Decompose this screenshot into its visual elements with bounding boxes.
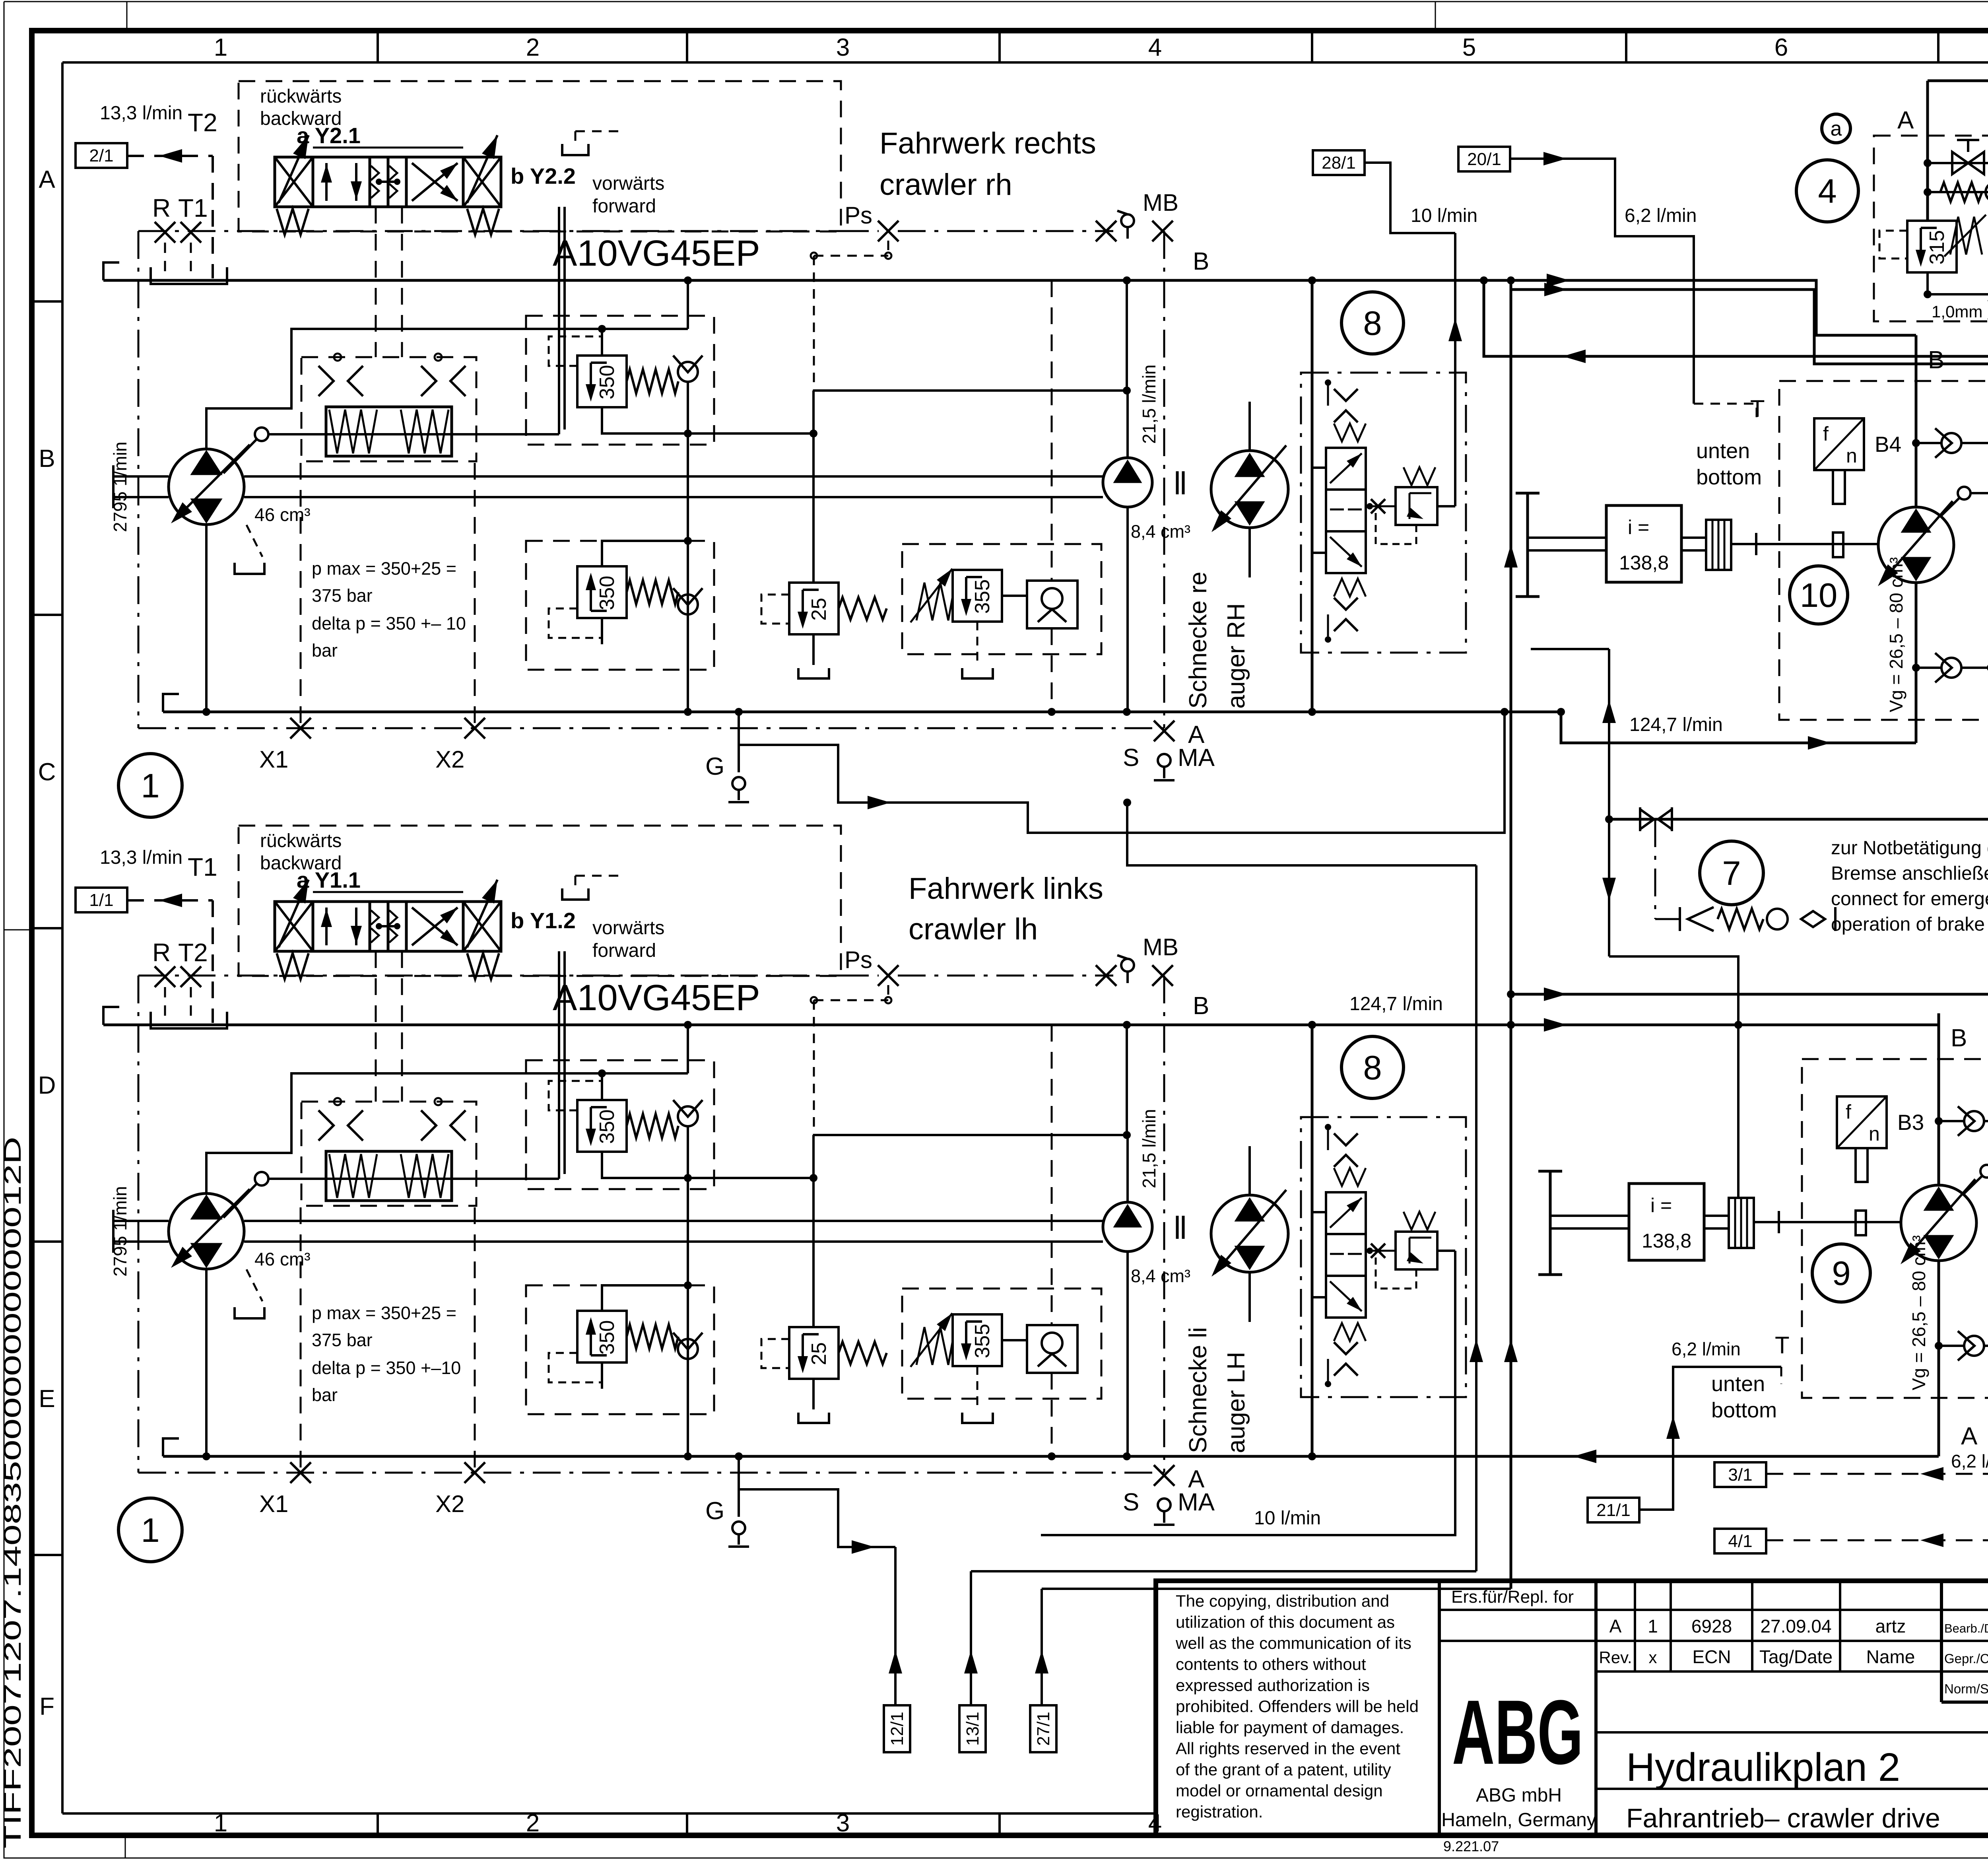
directional valve right spring pump1 right crawler <box>467 209 499 235</box>
speed sensor f/n box motor1 upper <box>1814 418 1864 470</box>
wire pilot rail y1090 pump1 right crawler <box>688 432 813 435</box>
aux motor triangle up pump2 left crawler <box>1236 1199 1263 1221</box>
svg-text:S: S <box>1123 744 1139 772</box>
port X marks MB pump2 left crawler <box>1096 965 1116 986</box>
aux motor stub top pump2 left crawler <box>1248 1146 1251 1195</box>
main pump circle pump2 left crawler <box>169 1193 244 1269</box>
svg-text:i =: i = <box>1650 1194 1672 1217</box>
wire 4/1 dashed return <box>1767 1539 1988 1541</box>
circled number 9 motor2 lower <box>1812 1244 1870 1302</box>
svg-text:All rights reserved in the eve: All rights reserved in the event <box>1176 1739 1400 1758</box>
svg-text:A10VG45EP: A10VG45EP <box>553 233 760 274</box>
wire B line upper to motor1 <box>1312 280 1916 335</box>
charge pump triangle pump1 right crawler <box>1115 461 1140 482</box>
svg-text:Ers.für/Repl. for: Ers.für/Repl. for <box>1451 1587 1574 1607</box>
shaft coupling lines pump1 right crawler <box>1176 471 1179 494</box>
wire cross link riser x3713 <box>1127 803 1476 865</box>
wire relief 25 top pump1 right crawler <box>812 433 815 583</box>
wire pilot rail y1090 pump2 left crawler <box>688 1177 813 1179</box>
pump control lever pivot pump2 left crawler <box>255 1172 268 1186</box>
svg-text:T1: T1 <box>178 194 208 222</box>
metering valves dashed box pump1 right crawler <box>301 357 476 461</box>
aux motor circle pump2 left crawler <box>1211 1195 1288 1272</box>
svg-text:4/1: 4/1 <box>1728 1532 1752 1551</box>
pump case drain tank pump2 left crawler <box>235 1307 264 1318</box>
relief valve 315 left <box>1907 221 1957 272</box>
svg-text:9: 9 <box>1832 1255 1850 1292</box>
relief 350 upper spring pump2 left crawler <box>627 1114 678 1138</box>
speed sensor f/n box motor2 lower <box>1837 1096 1887 1148</box>
aux motor stub top pump1 right crawler <box>1248 402 1251 451</box>
svg-text:MA: MA <box>1178 744 1215 772</box>
wire check to B line pump1 right crawler <box>687 278 689 329</box>
svg-text:375 bar: 375 bar <box>312 1330 373 1350</box>
valve control double line pump2 left crawler <box>558 951 560 1179</box>
wire rail to charge line pump2 left crawler <box>812 1135 815 1178</box>
main pump triangle down pump1 right crawler <box>192 499 221 522</box>
svg-text:8: 8 <box>1363 1049 1382 1087</box>
pump control rod pump2 left crawler <box>268 1178 559 1180</box>
svg-text:contents to others without: contents to others without <box>1176 1655 1366 1673</box>
svg-text:Bearb./Drawn: Bearb./Drawn <box>1944 1621 1988 1635</box>
svg-text:10 l/min: 10 l/min <box>1411 205 1477 226</box>
metering orifice left pump1 right crawler <box>318 366 334 396</box>
svg-text:6,2 l/min: 6,2 l/min <box>1951 1451 1988 1471</box>
border left margin row ticks <box>32 300 62 303</box>
svg-text:12/1: 12/1 <box>887 1712 907 1746</box>
svg-text:B: B <box>1951 1024 1967 1052</box>
svg-text:b Y1.2: b Y1.2 <box>511 908 576 933</box>
Ps pilot dashed lines pump1 right crawler <box>814 255 888 257</box>
pump control springs pump1 right crawler <box>329 410 377 453</box>
svg-text:B: B <box>39 445 55 472</box>
flange symbol motor2 lower <box>1549 1171 1552 1275</box>
svg-text:Tag/Date: Tag/Date <box>1759 1646 1833 1667</box>
wire A port vertical motor2 lower <box>1938 1261 1940 1421</box>
block8 valve arrows upper <box>1330 453 1362 483</box>
shaft tick marks motor1 upper <box>1755 533 1757 555</box>
svg-text:X1: X1 <box>259 1491 288 1517</box>
svg-text:T2: T2 <box>178 938 208 967</box>
svg-text:350: 350 <box>596 1110 619 1144</box>
svg-text:prohibited. Offenders will be: prohibited. Offenders will be held <box>1176 1697 1419 1716</box>
shaft small box motor1 upper <box>1833 533 1843 557</box>
wire lower 10 l/min line <box>1041 1251 1455 1535</box>
pump control springs pump2 left crawler <box>329 1154 377 1198</box>
block8 relief port X upper <box>1371 499 1385 513</box>
svg-text:Schnecke li: Schnecke li <box>1184 1327 1212 1453</box>
svg-text:connect for emergency: connect for emergency <box>1831 888 1988 910</box>
wire G drop pump1 right crawler <box>738 712 740 772</box>
port X mark Ps pump2 left crawler <box>878 965 899 986</box>
svg-text:bottom: bottom <box>1711 1398 1777 1422</box>
wire check355 vertical dashed pump1 right crawler <box>1051 280 1053 581</box>
coupling hatched box motor1 upper <box>1706 520 1731 570</box>
svg-text:3: 3 <box>836 34 850 61</box>
wire relief 25 top pump2 left crawler <box>812 1178 815 1327</box>
directional valve left solenoid arrow pump1 right crawler <box>279 135 309 203</box>
svg-text:crawler rh: crawler rh <box>879 168 1012 202</box>
aux motor variable arrow pump2 left crawler <box>1215 1190 1286 1273</box>
svg-text:1/1: 1/1 <box>89 890 113 910</box>
port G symbol pump2 left crawler <box>732 1522 745 1534</box>
wire B port vertical motor1 upper <box>1915 335 1918 507</box>
wire relief 350 lower top pump2 left crawler <box>602 1285 688 1311</box>
svg-text:Bremse anschließen: Bremse anschließen <box>1831 863 1988 884</box>
servo rod line motor1 upper <box>1971 492 1988 494</box>
port X marks X1 X2 pump1 right crawler <box>290 718 311 739</box>
flow ref box 4/1 <box>1714 1529 1766 1553</box>
svg-text:forward: forward <box>592 196 656 217</box>
svg-text:20/1: 20/1 <box>1467 150 1501 169</box>
pump control cylinder pump2 left crawler <box>326 1151 452 1201</box>
wire pump bottom to A line pump2 left crawler <box>205 1269 208 1456</box>
svg-text:6,2 l/min: 6,2 l/min <box>1625 205 1697 226</box>
svg-text:124,7 l/min: 124,7 l/min <box>1349 993 1443 1015</box>
metering drop dashed lines pump2 left crawler <box>300 1207 302 1473</box>
directional valve cell a arrows pump2 left crawler <box>325 908 328 945</box>
svg-text:375 bar: 375 bar <box>312 585 373 606</box>
svg-text:350: 350 <box>596 1320 619 1355</box>
flow ref box 3/1 <box>1714 1462 1766 1487</box>
port MA symbol pump1 right crawler <box>1158 754 1171 767</box>
svg-text:46 cm³: 46 cm³ <box>254 1249 311 1269</box>
wire relief 350 lower bottom pump2 left crawler <box>601 1362 603 1389</box>
hose break symbol <box>1640 809 1654 829</box>
port X mark R pump2 left crawler <box>155 966 175 987</box>
wire relief rail down pump2 left crawler <box>687 1178 689 1456</box>
directional valve Y1.1/Y1.2 body pump2 left crawler <box>275 902 501 951</box>
port X mark MA pump1 right crawler <box>1154 721 1175 741</box>
svg-text:138,8: 138,8 <box>1619 552 1669 574</box>
port X mark MA pump2 left crawler <box>1154 1465 1175 1486</box>
svg-text:350: 350 <box>596 576 619 610</box>
wire drop to 27/1 <box>1041 1589 1043 1705</box>
wire 3/1 dashed return <box>1767 1473 1988 1475</box>
block8 metering top upper <box>1334 389 1358 401</box>
shaft lines motor1 upper <box>1528 536 1606 539</box>
aux motor stub bottom pump1 right crawler <box>1248 528 1251 577</box>
svg-text:Fahrwerk rechts: Fahrwerk rechts <box>879 126 1096 160</box>
main pump triangle up pump2 left crawler <box>192 1196 221 1219</box>
svg-text:B: B <box>1193 992 1209 1020</box>
svg-text:T1: T1 <box>188 853 217 881</box>
circled number 10 motor1 upper <box>1790 566 1848 624</box>
block8 relief pilot dashed lower <box>1376 1257 1416 1289</box>
relief valve 350 lower dashed box pump1 right crawler <box>526 541 714 670</box>
svg-text:ECN: ECN <box>1692 1646 1731 1667</box>
pump shaft double line pump1 right crawler <box>113 475 169 478</box>
main pump triangle up pump1 right crawler <box>192 452 221 474</box>
valve control double line pump1 right crawler <box>558 207 560 434</box>
directional valve left spring pump1 right crawler <box>277 209 309 235</box>
flow ref box 13/1 <box>959 1705 986 1752</box>
circled letter a <box>1822 114 1850 143</box>
svg-text:unten: unten <box>1696 439 1750 463</box>
svg-text:f: f <box>1846 1101 1851 1123</box>
svg-text:B3: B3 <box>1897 1110 1924 1135</box>
circled number 1 pump2 left crawler <box>118 1498 182 1562</box>
port G symbol pump1 right crawler <box>732 777 745 790</box>
wire motor2 B entry <box>1938 1025 1940 1059</box>
pressure valve 355 dashed box pump1 right crawler <box>902 544 1101 654</box>
wire pump top to relief top rail pump2 left crawler <box>206 1073 688 1193</box>
title block line under Hydraulikplan <box>1596 1788 1988 1790</box>
svg-text:A: A <box>1961 1423 1978 1450</box>
svg-text:p max = 350+25 =: p max = 350+25 = <box>312 1303 456 1323</box>
shaft small box motor2 lower <box>1856 1211 1866 1235</box>
wire tensioner P feed <box>1511 290 1988 364</box>
tank below relief 25 pump1 right crawler <box>798 668 829 678</box>
wire lower B line extension <box>1312 1024 1939 1026</box>
block8 relief lower <box>1396 1232 1437 1269</box>
directional valve left solenoid X pump1 right crawler <box>275 157 313 207</box>
servo rod link circle motor1 upper <box>1958 487 1971 499</box>
directional valve right solenoid arrow pump2 left crawler <box>467 880 497 947</box>
check valve bottom motor2 lower <box>1935 1342 1943 1350</box>
relief valve 350 upper dashed box pump1 right crawler <box>526 316 714 445</box>
svg-text:T: T <box>1750 395 1765 422</box>
tank below relief 25 pump2 left crawler <box>798 1413 829 1423</box>
directional valve right solenoid arrow pump1 right crawler <box>467 135 497 203</box>
wire brake to coupling riser <box>1737 956 1739 1198</box>
wire 355 drain dashed pump2 left crawler <box>977 1366 978 1409</box>
wire 355 to check pump1 right crawler <box>1002 595 1027 597</box>
svg-text:21/1: 21/1 <box>1596 1500 1631 1520</box>
shaft tick marks motor2 lower <box>1778 1211 1780 1233</box>
relief 350 upper pilot dashed pump2 left crawler <box>549 1081 602 1110</box>
svg-text:vorwärts: vorwärts <box>592 173 664 194</box>
check valve beside relief upper pump2 left crawler <box>678 1106 698 1126</box>
svg-text:6928: 6928 <box>1691 1616 1732 1636</box>
svg-text:TIFF20071207.14083500000000000: TIFF20071207.14083500000000000012D <box>0 1137 26 1848</box>
wire from 2/1 box to tank line pump1 right crawler <box>127 155 213 157</box>
relief valve 350 upper pump2 left crawler <box>577 1100 627 1152</box>
svg-text:27.09.04: 27.09.04 <box>1760 1616 1831 1636</box>
wire tensioner T return <box>1484 280 1988 356</box>
motor triangle up motor2 lower <box>1925 1188 1952 1210</box>
wire A port vertical motor1 upper <box>1915 583 1918 743</box>
svg-text:B: B <box>1193 248 1209 275</box>
wire 355 drain dashed pump1 right crawler <box>977 622 978 665</box>
svg-text:model or ornamental design: model or ornamental design <box>1176 1781 1383 1800</box>
tank below 355 pump1 right crawler <box>962 668 993 678</box>
svg-text:350: 350 <box>596 365 619 400</box>
svg-text:4: 4 <box>1818 173 1837 210</box>
wire motor1 T dashed corner <box>1694 404 1757 422</box>
title block line above drawing number <box>1941 1701 1988 1704</box>
svg-text:T: T <box>1775 1332 1790 1359</box>
metering port dots pump2 left crawler <box>334 1098 341 1105</box>
A6VE80EZ dashed enclosure motor2 lower <box>1802 1059 1988 1398</box>
block8 valve arrows lower <box>1330 1198 1362 1228</box>
check valve box beside 355 pump2 left crawler <box>1027 1325 1077 1373</box>
relief 350 lower pilot dashed pump1 right crawler <box>549 608 602 638</box>
brake tap vertical <box>1608 649 1610 956</box>
directional valve cell b cross arrows pump2 left crawler <box>412 908 458 945</box>
border fold mark top-left <box>126 2 128 31</box>
port MB symbol pump2 left crawler <box>1121 959 1134 972</box>
pump control rod pump1 right crawler <box>268 433 559 435</box>
svg-text:zur Notbetätigung der: zur Notbetätigung der <box>1831 838 1988 859</box>
svg-text:MB: MB <box>1143 934 1178 960</box>
wire B main line pump2 left crawler <box>103 1024 1312 1026</box>
wire charge vertical pump2 left crawler <box>1126 1025 1128 1135</box>
svg-text:x: x <box>1649 1648 1657 1667</box>
svg-text:B: B <box>1928 346 1944 374</box>
block8 port wires upper <box>1312 466 1326 469</box>
coupling hatched box motor2 lower <box>1729 1198 1754 1248</box>
brake emergency dash-dot drop <box>1654 819 1656 919</box>
svg-text:Norm/Stds.: Norm/Stds. <box>1944 1681 1988 1696</box>
svg-text:6,2 l/min: 6,2 l/min <box>1672 1339 1741 1359</box>
metering orifice right pump2 left crawler <box>421 1110 436 1141</box>
svg-text:forward: forward <box>592 940 656 961</box>
motor triangle down motor2 lower <box>1925 1236 1952 1257</box>
gear ratio box i=138,8 motor2 lower <box>1629 1184 1704 1260</box>
title block outer box <box>1156 1581 1988 1835</box>
title block revision table verticals <box>1634 1581 1636 1671</box>
shaft coupling lines pump2 left crawler <box>1176 1216 1179 1239</box>
pump control cylinder pump1 right crawler <box>326 407 452 456</box>
svg-text:rückwärts: rückwärts <box>260 830 342 851</box>
svg-text:Rev.: Rev. <box>1599 1648 1632 1667</box>
block8 metering top lower <box>1334 1133 1358 1145</box>
svg-text:f: f <box>1823 423 1829 445</box>
tank symbol R/T pump2 left crawler <box>151 1012 227 1028</box>
svg-text:Name: Name <box>1866 1646 1915 1667</box>
valve tank bracket pump1 right crawler <box>562 144 588 155</box>
main pump variable arrow pump2 left crawler <box>174 1189 250 1265</box>
port X mark T pump1 right crawler <box>181 222 201 243</box>
flange symbol motor1 upper <box>1526 493 1529 597</box>
directional valve right solenoid X pump1 right crawler <box>463 157 501 207</box>
svg-text:ABG: ABG <box>1452 1681 1583 1783</box>
svg-text:1: 1 <box>214 34 227 61</box>
wire check355 vertical dashed pump2 left crawler <box>1051 1025 1053 1325</box>
svg-text:Fahrwerk links: Fahrwerk links <box>909 872 1103 906</box>
directional valve pilot top line pump1 right crawler <box>313 147 463 149</box>
motor triangle down motor1 upper <box>1903 558 1930 579</box>
svg-text:28/1: 28/1 <box>1322 153 1356 173</box>
svg-text:artz: artz <box>1875 1616 1906 1636</box>
title block line under Ers.fuer cell <box>1439 1609 1596 1611</box>
directional valve cell a arrows pump1 right crawler <box>325 163 328 201</box>
circled number 1 pump1 right crawler <box>118 754 182 817</box>
metering orifice right pump1 right crawler <box>421 366 436 396</box>
svg-text:1,0mm: 1,0mm <box>1932 302 1982 321</box>
relief 350 upper pilot dashed pump1 right crawler <box>549 336 602 366</box>
main pump triangle down pump2 left crawler <box>192 1244 221 1266</box>
svg-text:i =: i = <box>1628 516 1649 538</box>
wire drop to 12/1 <box>894 1547 897 1705</box>
wire pump bottom to A line pump1 right crawler <box>205 525 208 712</box>
valve 355 adjustable spring pump1 right crawler <box>916 583 953 620</box>
title block Bearb area horizontals <box>1941 1609 1988 1611</box>
svg-text:1: 1 <box>141 767 159 805</box>
block8 relief upper <box>1396 487 1437 525</box>
check valve bottom motor1 upper <box>1912 664 1920 672</box>
svg-text:Gepr./Chkd.: Gepr./Chkd. <box>1944 1651 1988 1666</box>
svg-text:1: 1 <box>1648 1616 1658 1636</box>
svg-text:1: 1 <box>214 1809 227 1837</box>
svg-text:vorwärts: vorwärts <box>592 917 664 939</box>
svg-text:2/1: 2/1 <box>89 146 113 165</box>
block8 metering bottom upper <box>1334 598 1358 610</box>
wire charge pump to rail pump1 right crawler <box>1126 391 1129 458</box>
block8 metering bottom lower <box>1334 1342 1358 1354</box>
svg-text:rückwärts: rückwärts <box>260 86 342 107</box>
aux motor triangle down pump2 left crawler <box>1236 1247 1263 1268</box>
motor variable arrow motor1 upper <box>1881 501 1953 583</box>
svg-text:utilization of this document a: utilization of this document as <box>1176 1613 1395 1631</box>
relief valve 350 lower dashed box pump2 left crawler <box>526 1285 714 1414</box>
pump shaft double line pump2 left crawler <box>113 1220 169 1222</box>
svg-text:2: 2 <box>526 1809 540 1837</box>
wire A main line pump1 right crawler <box>163 711 1312 713</box>
check valve beside relief upper pump1 right crawler <box>678 362 698 382</box>
aux motor variable arrow pump1 right crawler <box>1215 445 1286 529</box>
wire G network upper <box>739 712 1505 833</box>
title block line under second left cell <box>1439 1640 1596 1642</box>
svg-text:Hameln, Germany: Hameln, Germany <box>1441 1809 1596 1831</box>
tank below 355 pump2 left crawler <box>962 1413 993 1423</box>
wire tensioner top line to links cylinder <box>1928 81 1988 130</box>
wire A main line pump2 left crawler <box>163 1455 1312 1458</box>
svg-text:n: n <box>1846 445 1857 467</box>
valve pilot dashed drop lines pump2 left crawler <box>375 951 377 1102</box>
pump case drain tank pump1 right crawler <box>235 563 264 574</box>
border inner drawing frame <box>62 61 1988 64</box>
relief valve 25 pump2 left crawler <box>789 1327 839 1379</box>
svg-text:124,7 l/min: 124,7 l/min <box>1629 714 1723 735</box>
spring check left <box>1940 183 1982 202</box>
title block line under number box / title area top <box>1596 1731 1988 1734</box>
servo rod link circle motor2 lower <box>1980 1165 1988 1178</box>
directional valve pilot top line pump2 left crawler <box>313 891 463 893</box>
svg-text:25: 25 <box>808 1342 831 1365</box>
circled number 7 <box>1700 841 1763 905</box>
check valve top motor2 lower <box>1935 1117 1943 1125</box>
svg-text:ABG mbH: ABG mbH <box>1476 1785 1562 1806</box>
pump case drain leader pump2 left crawler <box>247 1269 262 1301</box>
svg-text:crawler lh: crawler lh <box>909 912 1038 946</box>
valve tank bracket pump2 left crawler <box>562 888 588 900</box>
svg-text:7: 7 <box>1722 855 1741 892</box>
flow ref box 2/1 pump1 right crawler <box>76 143 127 168</box>
svg-text:B4: B4 <box>1875 432 1901 457</box>
brake emergency chain <box>1679 907 1681 931</box>
svg-text:1: 1 <box>141 1512 159 1549</box>
title block vertical left of Bearb column <box>1940 1581 1943 1702</box>
tank symbol R/T pump1 right crawler <box>151 267 227 284</box>
aux motor stub bottom pump2 left crawler <box>1248 1272 1251 1322</box>
pump control lever pump1 right crawler <box>223 439 257 473</box>
charge pump circle pump2 left crawler <box>1103 1202 1152 1252</box>
svg-text:21,5 l/min: 21,5 l/min <box>1139 1109 1159 1188</box>
svg-text:27/1: 27/1 <box>1034 1712 1053 1746</box>
svg-text:D: D <box>38 1072 56 1099</box>
svg-text:8: 8 <box>1363 305 1382 342</box>
block8 dashed enclosure upper <box>1301 373 1466 653</box>
wire brake to lower half <box>1609 956 1738 1028</box>
wire lower G network <box>739 1489 895 1547</box>
wire lower A line extension <box>1312 1455 1939 1458</box>
metering orifice left pump2 left crawler <box>318 1110 334 1141</box>
shutoff valve rail <box>1928 162 1988 164</box>
block8 spring bottom upper <box>1334 579 1366 597</box>
aux motor circle pump1 right crawler <box>1211 451 1288 528</box>
